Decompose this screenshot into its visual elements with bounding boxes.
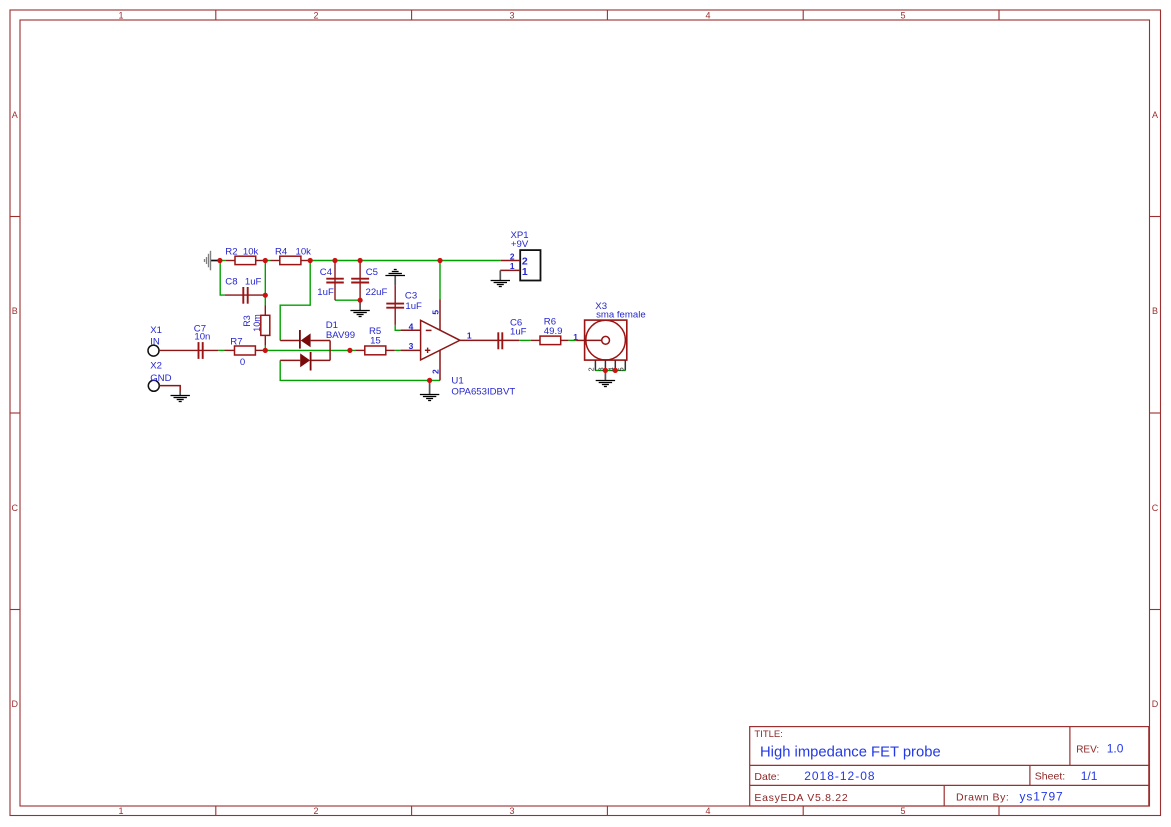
- wire C3 to op-amp pin 4: [395, 325, 400, 330]
- svg-text:49.9: 49.9: [544, 326, 563, 337]
- svg-text:2: 2: [431, 369, 441, 374]
- svg-text:22uF: 22uF: [366, 287, 388, 298]
- wire C8/R3 node: [264, 261, 266, 351]
- svg-text:A: A: [1152, 110, 1158, 120]
- pin X2: [148, 360, 171, 391]
- svg-text:D: D: [1152, 699, 1159, 709]
- svg-text:IN: IN: [150, 336, 160, 347]
- resistor R5: [355, 326, 395, 355]
- ground at XP1 pin1: [491, 270, 510, 286]
- connector X3: [573, 301, 645, 371]
- svg-text:TITLE:: TITLE:: [754, 729, 783, 740]
- junction X3 pin bus a: [603, 368, 608, 373]
- resistor R7: [225, 336, 266, 367]
- svg-text:2: 2: [510, 251, 515, 261]
- svg-text:C: C: [12, 503, 19, 513]
- svg-text:BAV99: BAV99: [326, 330, 355, 341]
- ground near R2 (rotated earth): [205, 251, 220, 270]
- wire C6 to R6: [519, 339, 576, 341]
- pin X1: [148, 325, 162, 356]
- svg-text:5: 5: [900, 11, 905, 21]
- svg-text:B: B: [1152, 306, 1158, 316]
- junction dots: [217, 258, 618, 383]
- svg-text:R7: R7: [230, 336, 242, 347]
- svg-text:ys1797: ys1797: [1020, 790, 1064, 804]
- svg-text:R4: R4: [275, 247, 288, 258]
- wire C8 left branch: [220, 261, 225, 296]
- TITLEBLOCK: [750, 727, 1149, 806]
- junction input / R5: [347, 348, 352, 353]
- svg-text:1: 1: [467, 331, 472, 341]
- junction at GND flag / R2: [217, 258, 222, 263]
- svg-text:R2: R2: [225, 247, 237, 258]
- junction C4 top: [332, 258, 337, 263]
- svg-text:1: 1: [118, 806, 123, 816]
- wire +9V rail: [220, 260, 501, 262]
- capacitor C6: [460, 317, 527, 349]
- svg-text:sma female: sma female: [596, 310, 646, 321]
- svg-text:1uF: 1uF: [405, 301, 422, 312]
- capacitor C5: [351, 261, 387, 301]
- svg-text:4: 4: [705, 11, 710, 21]
- svg-text:1uF: 1uF: [245, 276, 262, 287]
- svg-text:C5: C5: [366, 267, 378, 278]
- svg-text:X1: X1: [150, 325, 162, 336]
- wire X3 pin bus: [595, 369, 626, 371]
- svg-text:1: 1: [118, 11, 123, 21]
- svg-text:C8: C8: [225, 276, 237, 287]
- capacitor C4: [317, 261, 344, 301]
- junction C4/C5 bottom: [358, 298, 363, 303]
- svg-text:1uF: 1uF: [510, 327, 527, 338]
- wire feedback from R4 node to diodes: [280, 261, 310, 341]
- resistor R3: [242, 306, 270, 346]
- svg-text:3: 3: [409, 341, 414, 351]
- svg-text:10m: 10m: [252, 314, 262, 332]
- svg-text:5: 5: [617, 367, 626, 371]
- junction R4 / feedback: [308, 258, 313, 263]
- svg-text:4: 4: [705, 806, 710, 816]
- svg-text:EasyEDA V5.8.22: EasyEDA V5.8.22: [754, 792, 848, 804]
- diode D1 bottom (points right): [280, 352, 330, 371]
- resistor R2: [225, 247, 265, 265]
- wire input row: [218, 349, 400, 351]
- junction R2/R4/C8: [263, 258, 268, 263]
- svg-text:High impedance FET probe: High impedance FET probe: [760, 744, 941, 760]
- svg-text:OPA653IDBVT: OPA653IDBVT: [451, 386, 515, 397]
- resistor R4: [271, 247, 312, 265]
- svg-text:10k: 10k: [243, 247, 259, 258]
- svg-text:Date:: Date:: [754, 771, 779, 783]
- capacitor C3: [386, 286, 422, 325]
- connector XP1: [500, 230, 540, 280]
- diode D1 top (points left): [280, 320, 355, 348]
- wire X2 to ground: [159, 386, 180, 392]
- ground at X3: [596, 370, 615, 386]
- svg-text:10k: 10k: [296, 247, 312, 258]
- svg-text:1: 1: [522, 266, 528, 278]
- svg-text:D: D: [12, 699, 19, 709]
- junction R7/R3 input node: [263, 348, 268, 353]
- junction ground rail / op-amp gnd: [427, 378, 432, 383]
- svg-text:2: 2: [587, 367, 596, 371]
- svg-text:5: 5: [900, 806, 905, 816]
- svg-text:4: 4: [409, 322, 414, 332]
- svg-text:1: 1: [510, 261, 515, 271]
- capacitor C8: [225, 276, 265, 303]
- svg-text:X2: X2: [150, 360, 162, 371]
- svg-text:Sheet:: Sheet:: [1035, 771, 1065, 783]
- svg-text:Drawn By:: Drawn By:: [956, 792, 1009, 804]
- junction X3 pin bus b: [613, 368, 618, 373]
- ground at op-amp pin2: [420, 380, 439, 400]
- svg-text:REV:: REV:: [1076, 744, 1099, 755]
- svg-text:15: 15: [370, 335, 381, 346]
- resistor R6: [531, 317, 569, 345]
- svg-text:A: A: [12, 110, 18, 120]
- wire diode pair right link: [329, 341, 331, 361]
- svg-text:3: 3: [509, 11, 514, 21]
- SCHEMATIC: [148, 230, 646, 401]
- svg-text:B: B: [12, 306, 18, 316]
- junction pin5 supply: [437, 258, 442, 263]
- ground below C5: [350, 300, 369, 316]
- svg-text:1uF: 1uF: [317, 287, 334, 298]
- svg-text:2: 2: [313, 806, 318, 816]
- svg-text:1/1: 1/1: [1081, 769, 1098, 783]
- svg-text:U1: U1: [451, 375, 463, 386]
- svg-text:1.0: 1.0: [1107, 742, 1124, 756]
- ground at X2: [171, 391, 190, 401]
- svg-text:C3: C3: [405, 290, 417, 301]
- ground above C3 (flipped): [385, 270, 405, 286]
- svg-text:C: C: [1152, 503, 1159, 513]
- svg-text:0: 0: [240, 357, 245, 368]
- wire C4 C5 bottom link: [335, 299, 360, 301]
- svg-text:3: 3: [509, 806, 514, 816]
- capacitor C7: [159, 323, 218, 359]
- svg-text:2: 2: [313, 11, 318, 21]
- wire op-amp pin 5 supply: [439, 261, 441, 300]
- junction C8/R3: [263, 293, 268, 298]
- junction C5 top: [358, 258, 363, 263]
- svg-text:1: 1: [573, 332, 578, 342]
- svg-text:R3: R3: [242, 315, 252, 327]
- svg-text:C4: C4: [320, 267, 333, 278]
- svg-text:GND: GND: [150, 373, 171, 384]
- svg-text:10n: 10n: [194, 332, 210, 343]
- svg-text:2018-12-08: 2018-12-08: [804, 769, 875, 783]
- svg-text:+9V: +9V: [511, 239, 529, 250]
- op-amp U1: [401, 300, 516, 398]
- wire diode bottom to ground rail: [280, 360, 440, 380]
- svg-text:5: 5: [431, 310, 441, 315]
